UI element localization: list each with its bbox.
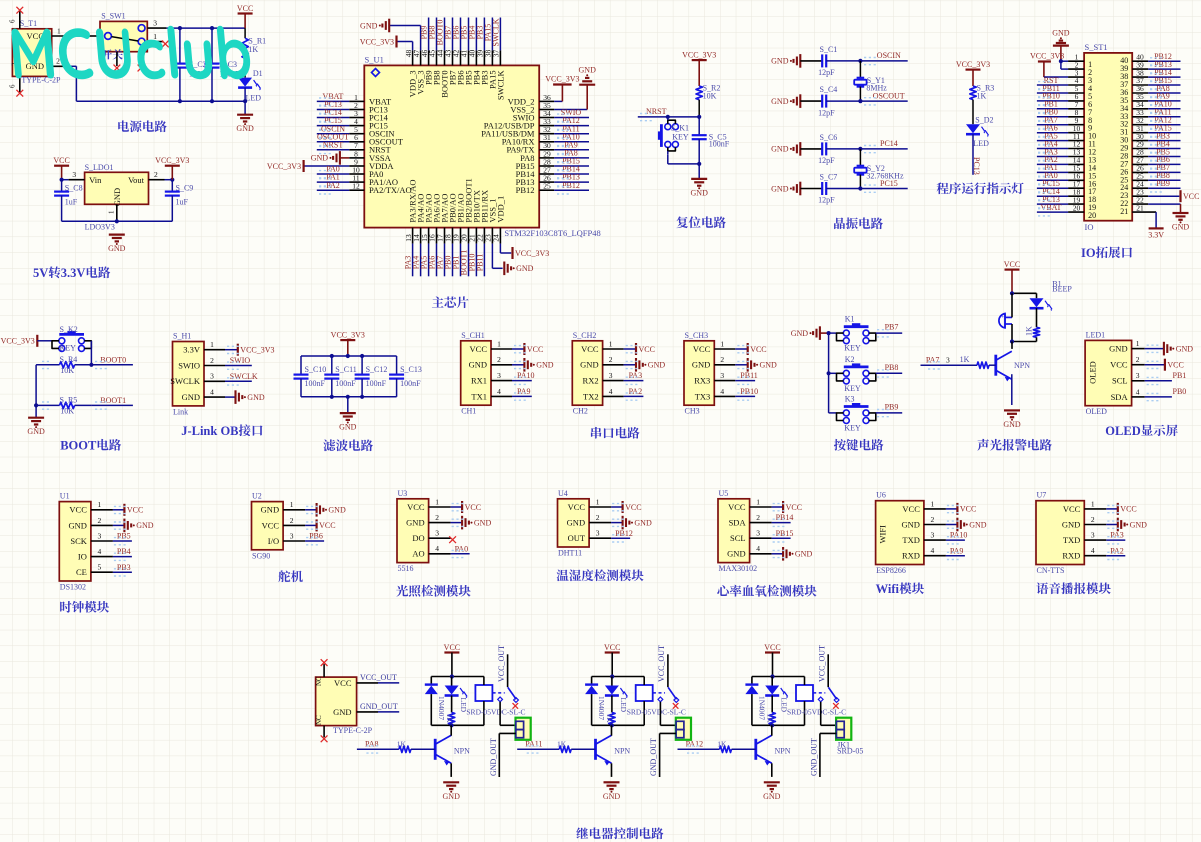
svg-text:GND: GND: [763, 792, 781, 801]
svg-text:GND: GND: [328, 506, 346, 515]
wire net PA2 U7: [1084, 546, 1125, 559]
svg-text:GND: GND: [339, 423, 357, 432]
svg-text:AO: AO: [412, 549, 424, 559]
svg-text:VCC: VCC: [581, 344, 599, 354]
push button K1 KEY: [837, 315, 876, 353]
svg-text:3: 3: [946, 356, 950, 365]
svg-text:Vout: Vout: [128, 175, 145, 185]
wire net PA5 io pin 11: [1037, 131, 1084, 144]
title 按键电路: [834, 439, 884, 451]
wire net PA9 io pin 35: [1132, 92, 1180, 105]
svg-text:CH3: CH3: [685, 407, 700, 416]
wire net PB7 pin 43: [444, 18, 453, 66]
wire net PA11 relay base: [517, 740, 559, 754]
svg-text:GND: GND: [27, 427, 45, 436]
svg-text:GND: GND: [567, 518, 585, 528]
module U3 5516: [397, 489, 429, 573]
power flag VCC top: [237, 4, 253, 28]
wire net PA8 io pin 36: [1132, 84, 1180, 97]
ground GND jlink: [204, 388, 265, 404]
title OLED显示屏: [1105, 424, 1178, 438]
svg-text:SRD-05: SRD-05: [837, 746, 863, 755]
svg-text:SRD-05VDC-SL-C: SRD-05VDC-SL-C: [627, 708, 686, 717]
svg-text:SWCLK: SWCLK: [170, 376, 201, 386]
wire net PA7 pin 17: [436, 228, 445, 277]
svg-text:IO: IO: [1081, 246, 1096, 260]
svg-text:1: 1: [497, 339, 501, 348]
svg-text:GND: GND: [360, 21, 378, 30]
svg-text:VCC: VCC: [470, 344, 488, 354]
svg-text:1: 1: [609, 339, 613, 348]
wire key to boot0 node: [89, 341, 93, 367]
svg-text:2: 2: [609, 355, 613, 364]
wire boot gnd bus: [34, 365, 38, 418]
wire net PC13 io pin 19: [1037, 195, 1084, 208]
svg-text:BOOT0: BOOT0: [100, 355, 126, 364]
ground GND S_CH1: [491, 355, 554, 371]
svg-text:Wifi: Wifi: [876, 582, 900, 596]
svg-text:TXD: TXD: [1063, 535, 1080, 545]
wire net PB3 pin 39: [475, 18, 484, 66]
svg-text:PB9: PB9: [1156, 179, 1170, 188]
power flag VCC relay PA11: [604, 643, 620, 677]
svg-text:VCC: VCC: [1004, 260, 1020, 269]
wire emitter relay PA8: [450, 763, 452, 777]
push button K2 KEY: [837, 355, 876, 393]
power flag VCC U3: [429, 497, 481, 513]
ground GND S_CH3: [714, 355, 777, 371]
svg-text:GND: GND: [443, 792, 461, 801]
svg-text:Vin: Vin: [89, 175, 102, 185]
wire net PB9 pin 46: [420, 18, 429, 66]
title 滤波电路: [323, 439, 373, 451]
regulator S_LDO1 LDO3V3: [85, 163, 149, 232]
push button S_K2 KEY: [52, 325, 91, 352]
wire emitter relay PA12: [771, 763, 773, 777]
title IO拓展口: [1081, 246, 1132, 260]
wire net PB4 pin 40: [467, 18, 476, 66]
wire net PA15 io pin 31: [1132, 124, 1180, 137]
svg-text:PB12: PB12: [516, 185, 535, 195]
svg-text:1K: 1K: [605, 714, 614, 724]
wire net OSCIN pin 5: [317, 124, 365, 137]
title 复位电路: [676, 216, 725, 228]
wire net PB3 io pin 30: [1132, 131, 1180, 144]
svg-text:4: 4: [435, 544, 439, 553]
svg-text:2: 2: [596, 513, 600, 522]
wire net PB4 io pin 29: [1132, 139, 1180, 152]
svg-text:NC: NC: [315, 715, 323, 725]
svg-text:1K: 1K: [717, 739, 727, 748]
capacitor S_C8: [54, 180, 82, 222]
wire net PB9 io pin 24: [1132, 179, 1180, 192]
wire net PB15 io pin 37: [1132, 76, 1180, 89]
svg-text:3: 3: [720, 371, 724, 380]
wire net SWIO pin 34: [539, 108, 589, 121]
svg-text:VCC: VCC: [237, 4, 253, 13]
wire net PB1 pin 19: [452, 228, 461, 277]
wire net PA0 pin 10: [317, 165, 365, 178]
connector TYPE-C-2P output: [315, 676, 373, 735]
wire filter top rail: [301, 354, 397, 358]
wire net VBAT io pin 20: [1037, 203, 1084, 216]
svg-text:PB11: PB11: [475, 254, 484, 272]
capacitor S_C5: [692, 117, 730, 166]
resistor S_R4: [36, 355, 91, 375]
svg-text:GND: GND: [791, 329, 809, 338]
svg-text:10K: 10K: [703, 92, 717, 101]
capacitor S_C1: [800, 45, 837, 77]
wire net PB15 pin 28: [539, 157, 589, 170]
svg-text:3: 3: [596, 529, 600, 538]
title 心率血氧检测模块: [717, 585, 816, 597]
wire net PA15 pin 38: [483, 18, 492, 66]
ground GND ldo: [108, 235, 126, 254]
svg-text:PA3: PA3: [629, 371, 643, 380]
svg-text:2: 2: [210, 356, 214, 365]
wire net PB11 S_CH3: [714, 371, 758, 384]
svg-text:PB15: PB15: [776, 529, 794, 538]
svg-text:S_C10: S_C10: [305, 365, 327, 374]
svg-text:S_C13: S_C13: [400, 365, 422, 374]
title 串口电路: [591, 427, 640, 439]
wire net PB1 oled: [1132, 371, 1187, 385]
ground GND relay PA11: [603, 782, 621, 801]
wire net PB13 io pin 39: [1132, 60, 1180, 73]
wire net PC14 io pin 18: [1037, 187, 1084, 200]
wire net PA1 pin 11: [317, 173, 365, 186]
resistor S_R5: [36, 396, 91, 416]
capacitor S_C12: [355, 356, 388, 397]
svg-text:4: 4: [756, 544, 760, 553]
svg-text:OLED: OLED: [1088, 361, 1098, 384]
svg-text:VCC: VCC: [639, 345, 655, 354]
svg-text:SWCLK: SWCLK: [230, 372, 258, 381]
svg-text:VCC: VCC: [1120, 505, 1136, 514]
svg-text:GND: GND: [333, 707, 351, 717]
svg-text:PB1: PB1: [1173, 371, 1187, 380]
wire net PA10 io pin 34: [1132, 100, 1180, 113]
power flag VCC alarm: [1004, 260, 1020, 293]
wire net PA10 S_CH1: [491, 371, 535, 384]
svg-text:VCC_3V3: VCC_3V3: [545, 75, 579, 84]
LED relay PA8: [445, 677, 468, 713]
svg-text:VCC_3V3: VCC_3V3: [155, 156, 189, 165]
wire net PA5 pin 15: [420, 228, 429, 277]
title 舵机: [278, 570, 302, 582]
LED D1: [238, 69, 263, 103]
svg-text:2: 2: [56, 56, 60, 65]
title 语音播报模块: [1036, 582, 1110, 594]
wire net PA2 io pin 14: [1037, 155, 1084, 168]
svg-text:VCC: VCC: [69, 505, 87, 515]
svg-text:K2: K2: [845, 355, 855, 364]
LED relay PA12: [765, 677, 788, 713]
module U2 SG90: [252, 492, 284, 561]
resistor 1K relay branch PA12: [766, 696, 776, 726]
svg-text:VCC: VCC: [527, 345, 543, 354]
svg-text:LED: LED: [973, 139, 989, 148]
svg-text:KEY: KEY: [672, 132, 689, 141]
power flag VCC U2: [283, 516, 335, 532]
wire ldo ground rail: [62, 204, 173, 223]
svg-text:5: 5: [98, 563, 102, 572]
svg-text:VCC_OUT: VCC_OUT: [818, 645, 827, 682]
wire net PA9 pin 30: [539, 140, 589, 153]
svg-text:1K: 1K: [977, 92, 987, 101]
wire net VCC_OUT pole PA8: [497, 645, 508, 687]
svg-text:PC14: PC14: [880, 139, 898, 148]
connector S_H1 J-Link: [170, 332, 204, 417]
relay contact PA11: [653, 687, 679, 708]
svg-text:GND: GND: [1003, 420, 1021, 429]
wire net PA8 pin 29: [539, 149, 589, 162]
svg-text:1: 1: [756, 497, 760, 506]
svg-text:20: 20: [1073, 203, 1081, 212]
wire net PA7 io pin 9: [1037, 116, 1084, 129]
svg-text:SCL: SCL: [1112, 376, 1128, 386]
svg-text:SWIO: SWIO: [230, 356, 251, 365]
svg-text:12pF: 12pF: [818, 196, 835, 205]
svg-text:S_CH2: S_CH2: [573, 331, 597, 340]
svg-text:WIFI: WIFI: [878, 525, 888, 544]
svg-text:VCC_3V3: VCC_3V3: [515, 249, 549, 258]
svg-text:RX3: RX3: [694, 376, 710, 386]
wire Vin pin 3: [60, 170, 85, 182]
svg-text:VDD_1: VDD_1: [495, 196, 505, 223]
wire net PB14 io pin 38: [1132, 68, 1180, 81]
wire net PA11 io pin 33: [1132, 108, 1180, 121]
power flag VCC_3V3 boot: [1, 335, 52, 347]
svg-text:GND: GND: [112, 188, 122, 206]
svg-text:1K: 1K: [766, 714, 775, 724]
svg-text:GND: GND: [311, 154, 329, 163]
ground GND U4 pin 2: [589, 513, 652, 529]
svg-text:Link: Link: [173, 407, 188, 416]
svg-text:GND: GND: [760, 361, 778, 370]
svg-text:GND: GND: [236, 124, 254, 133]
title J-Link OB接口: [181, 424, 262, 438]
wire net PA1 io pin 15: [1037, 163, 1084, 176]
svg-text:CH2: CH2: [573, 407, 588, 416]
ground GND boot: [27, 418, 45, 437]
title 主芯片: [432, 296, 469, 308]
svg-text:VBAT: VBAT: [1041, 203, 1062, 212]
svg-text:GND: GND: [474, 518, 492, 527]
svg-text:VCC_3V3: VCC_3V3: [360, 37, 394, 46]
resistor 1K relay base PA8: [397, 739, 436, 752]
svg-text:S_T1: S_T1: [20, 19, 37, 28]
display LED1 OLED: [1085, 330, 1132, 416]
svg-text:3: 3: [98, 531, 102, 540]
svg-text:OSCOUT: OSCOUT: [873, 91, 905, 100]
svg-text:GND_OUT: GND_OUT: [489, 738, 498, 776]
wire net PB12 io pin 40: [1132, 52, 1180, 65]
svg-text:S_LDO1: S_LDO1: [85, 163, 114, 172]
transistor NPN alarm: [996, 351, 1030, 381]
svg-text:PB6: PB6: [309, 532, 323, 541]
label 开关 under switch: [102, 49, 123, 59]
svg-text:1uF: 1uF: [176, 198, 189, 207]
svg-text:GND: GND: [261, 505, 279, 515]
svg-text:OLED: OLED: [1105, 424, 1140, 438]
wire net PB11 pin 22: [475, 228, 484, 277]
relay coil PA12: [796, 677, 813, 726]
svg-text:2: 2: [1136, 355, 1140, 364]
svg-text:GND: GND: [969, 520, 987, 529]
title BOOT电路: [60, 439, 121, 453]
capacitor S_C10: [294, 356, 327, 397]
wire net PB0 pin 18: [444, 228, 453, 277]
module U5 MAX30102: [718, 489, 757, 573]
svg-text:PB10: PB10: [740, 387, 758, 396]
svg-text:4: 4: [210, 388, 214, 397]
relay coil PA11: [636, 677, 653, 726]
svg-text:KEY: KEY: [60, 343, 77, 352]
svg-text:GND: GND: [68, 520, 86, 530]
resistor 1K relay branch PA8: [445, 696, 455, 726]
transistor NPN relay PA12: [756, 725, 791, 765]
diode 1N4007 PA8: [425, 677, 446, 726]
capacitor S_C6: [800, 133, 837, 165]
svg-text:S_CH3: S_CH3: [685, 331, 709, 340]
power flag VCC U1: [91, 500, 143, 516]
svg-text:DHT11: DHT11: [558, 549, 582, 558]
module U1 DS1302: [59, 492, 91, 592]
svg-text:3: 3: [1091, 531, 1095, 540]
wire net PB0 io pin 8: [1037, 108, 1084, 121]
svg-text:GND_OUT: GND_OUT: [649, 738, 658, 776]
svg-text:4: 4: [720, 387, 724, 396]
wire net PA10 U6: [924, 531, 968, 544]
wire key to bottom node: [668, 154, 699, 164]
svg-text:KEY: KEY: [844, 384, 861, 393]
svg-text:3: 3: [1136, 371, 1140, 380]
svg-text:SDA: SDA: [729, 518, 747, 528]
relay contact PA12: [813, 687, 839, 708]
svg-text:LED1: LED1: [1086, 330, 1106, 339]
title 光照检测模块: [396, 585, 470, 597]
wire NO contact to connector PA12: [821, 702, 836, 726]
wire net PA3 io pin 13: [1037, 147, 1084, 160]
connector S_CH3 CH3: [684, 331, 714, 416]
wire S_T1 VCC to switch: [52, 26, 100, 36]
wire net PB12 U4: [589, 529, 633, 542]
wire net PA2 S_CH2: [603, 387, 644, 400]
switch pin 3 wire to VCC node: [147, 18, 245, 28]
svg-text:VCC_OUT: VCC_OUT: [360, 673, 397, 682]
switch pin 1 no-connect: [147, 32, 168, 47]
resistor 1K alarm base: [960, 355, 996, 368]
svg-text:3: 3: [290, 531, 294, 540]
svg-text:4: 4: [609, 387, 613, 396]
wire relay top rail: [431, 674, 484, 678]
svg-text:DO: DO: [412, 533, 424, 543]
svg-text:J-Link OB: J-Link OB: [181, 424, 238, 438]
ground GND reset: [691, 164, 709, 198]
wire net PB13 pin 26: [539, 173, 589, 186]
svg-text:12pF: 12pF: [818, 68, 835, 77]
connector S_ST1 IO header body: [1084, 42, 1132, 232]
push button K3 KEY: [837, 394, 876, 432]
svg-text:PB14: PB14: [776, 513, 794, 522]
transistor NPN relay PA8: [435, 725, 470, 765]
svg-text:OUT: OUT: [568, 533, 586, 543]
connector S_T1 TYPE-C-2P: [11, 19, 62, 85]
svg-text:GND: GND: [580, 360, 598, 370]
svg-text:PB4: PB4: [117, 547, 131, 556]
wire net PC15: [826, 179, 908, 193]
module U4 DHT11: [558, 489, 590, 558]
svg-text:GND: GND: [691, 188, 709, 197]
svg-text:2: 2: [931, 515, 935, 524]
svg-text:PA10: PA10: [950, 531, 968, 540]
power flag VCC U7: [1084, 499, 1136, 515]
svg-text:3: 3: [609, 371, 613, 380]
svg-text:PC15: PC15: [880, 179, 898, 188]
svg-text:1K: 1K: [557, 739, 567, 748]
svg-text:GND: GND: [771, 145, 789, 154]
capacitor S_C13: [389, 356, 422, 397]
ground at VSS_3 pin 47: [360, 19, 421, 66]
svg-text:GND: GND: [634, 518, 652, 527]
svg-text:IO: IO: [1085, 222, 1094, 232]
svg-text:PA2/TX/AO: PA2/TX/AO: [369, 185, 412, 195]
svg-text:NPN: NPN: [614, 747, 630, 756]
svg-text:VCC: VCC: [334, 678, 352, 688]
svg-text:GND: GND: [1109, 344, 1127, 354]
wire net VCC_OUT pole PA11: [657, 645, 668, 687]
wire net PA6 io pin 10: [1037, 124, 1084, 137]
power flag VCC_3V3 reset: [682, 51, 716, 87]
svg-text:1: 1: [435, 497, 439, 506]
svg-text:3.3V: 3.3V: [1148, 231, 1164, 240]
svg-text:S_C9: S_C9: [176, 183, 194, 192]
svg-text:1K: 1K: [445, 714, 454, 724]
resistor 1K relay base PA12: [717, 739, 756, 752]
svg-text:GND: GND: [648, 361, 666, 370]
svg-text:TYPE-C-2P: TYPE-C-2P: [333, 726, 373, 735]
capacitor S_C3: [205, 26, 241, 103]
io pin 2 stub: [1068, 60, 1084, 69]
svg-text:2: 2: [154, 170, 158, 179]
svg-text:VCC_3V3: VCC_3V3: [240, 346, 274, 355]
title 程序运行指示灯: [937, 182, 1024, 194]
wire net PA12 relay base: [678, 740, 720, 754]
wire net PB12 pin 25: [539, 181, 589, 194]
svg-text:SG90: SG90: [252, 551, 270, 560]
wire net VCC_OUT typec: [357, 673, 400, 683]
wire net PB1 io pin 7: [1037, 100, 1084, 113]
svg-text:3: 3: [210, 372, 214, 381]
svg-text:PB3: PB3: [117, 563, 131, 572]
svg-text:VCC: VCC: [693, 344, 711, 354]
svg-text:CE: CE: [76, 567, 87, 577]
svg-text:BOOT1: BOOT1: [100, 396, 126, 405]
ground GND relay PA8: [443, 782, 461, 801]
wire net PB10 io pin 6: [1037, 92, 1084, 105]
svg-text:VCC: VCC: [568, 502, 586, 512]
svg-text:1: 1: [98, 500, 102, 509]
svg-text:PB12: PB12: [615, 529, 633, 538]
resistor 1K alarm: [1025, 308, 1040, 341]
svg-text:NPN: NPN: [775, 747, 791, 756]
wire net PC14 pin 3: [317, 108, 365, 121]
svg-text:LDO3V3: LDO3V3: [85, 223, 115, 232]
svg-text:+: +: [1001, 314, 1005, 321]
svg-text:100nF: 100nF: [335, 379, 356, 388]
capacitor S_C4: [800, 85, 837, 117]
